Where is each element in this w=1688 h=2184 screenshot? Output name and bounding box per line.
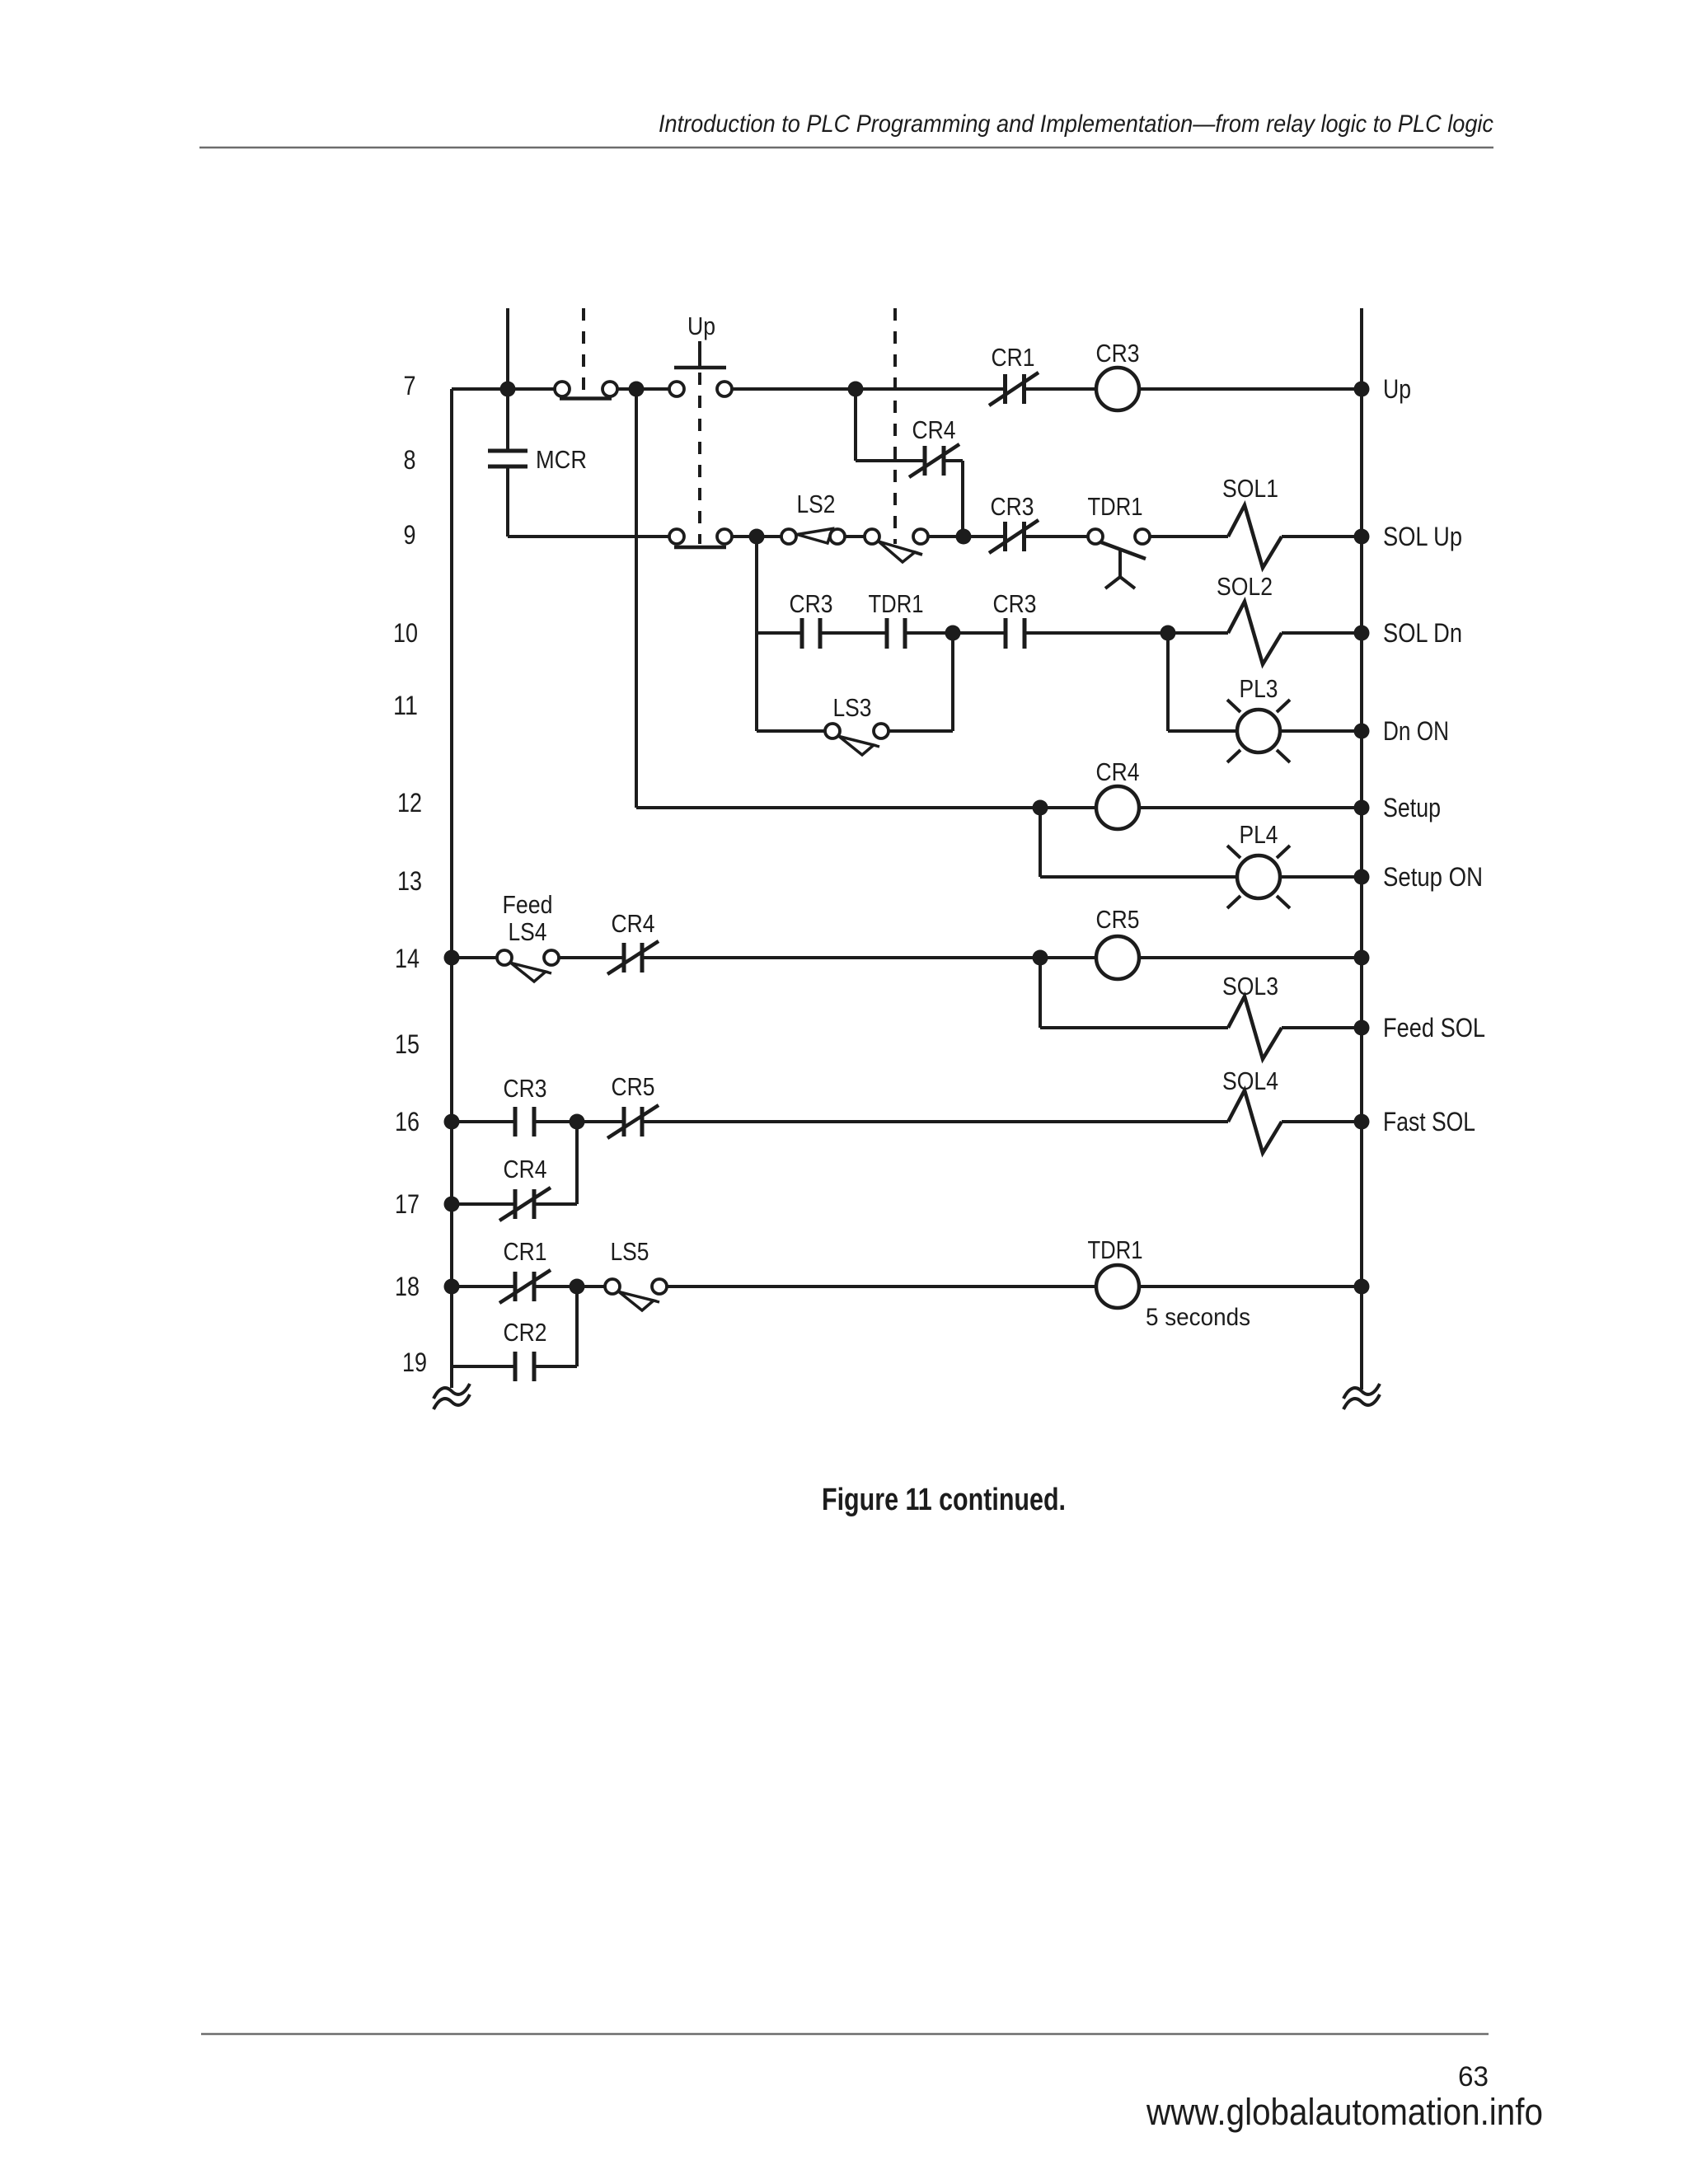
coil CR5 [1096, 936, 1139, 979]
contact TDR1 NO bars rung10 [885, 618, 889, 649]
svg-text:Figure 11 continued.: Figure 11 continued. [822, 1483, 1066, 1517]
limit switch LS5 NO terminals [605, 1279, 620, 1294]
wire rung9 seg2 [732, 535, 781, 538]
junction dot rung13/right rail [1354, 869, 1370, 885]
junction dot rung14/left rail [444, 950, 460, 966]
wire rung7 seg3 [732, 387, 1005, 391]
wire rung12 seg2 [1138, 806, 1362, 809]
junction dot rung7/rung12 feeder [629, 382, 645, 397]
pushbutton Up NO contact terminals [669, 382, 684, 396]
timed contact TDR1 NO terminals [1088, 529, 1103, 544]
wire rung9 seg4 [928, 535, 1005, 538]
branch wire rung19 up to rung18 [575, 1286, 579, 1366]
mechanical linkage dashed of Up pushbutton poles [698, 373, 701, 544]
MCR contact lower plate [488, 465, 527, 469]
svg-text:CR4: CR4 [1096, 757, 1140, 786]
svg-text:CR5: CR5 [612, 1072, 655, 1101]
wire rung8 seg2 [944, 459, 963, 462]
svg-text:CR2: CR2 [504, 1318, 547, 1347]
wire rung12 seg1 [636, 806, 1097, 809]
pushbutton Up lower contact bridge bar [674, 546, 726, 550]
svg-text:16: 16 [395, 1107, 420, 1137]
junction dot rung10/PL3 branch [1160, 626, 1176, 641]
wire rung11 seg4 [1280, 729, 1362, 733]
svg-text:TDR1: TDR1 [1088, 1235, 1143, 1264]
pushbutton Up operator bar [674, 366, 726, 370]
coil TDR1 [1096, 1265, 1139, 1308]
svg-text:CR3: CR3 [790, 589, 833, 618]
solenoid SOL4 [1228, 1090, 1282, 1153]
wire rung18 seg2 [534, 1285, 605, 1288]
svg-text:Up: Up [687, 312, 715, 340]
svg-text:11: 11 [393, 691, 418, 720]
svg-text:12: 12 [397, 788, 422, 818]
junction dot rung7/CR4 branch [848, 382, 864, 397]
svg-text:TDR1: TDR1 [869, 589, 924, 618]
svg-text:63: 63 [1458, 2061, 1489, 2093]
svg-text:PL3: PL3 [1240, 674, 1278, 703]
wire rung10 seg1 [757, 631, 802, 635]
limit switch LS3 actuator arm [839, 737, 874, 756]
coil CR4 [1096, 786, 1139, 829]
junction dot rung15/right rail [1354, 1020, 1370, 1036]
rung numbers [393, 371, 427, 1377]
solenoid SOL3 [1228, 996, 1282, 1059]
wire rung11 seg1 [757, 729, 825, 733]
svg-text:TDR1: TDR1 [1088, 492, 1143, 521]
junction dot rung9/rung10 branch [749, 529, 765, 545]
wire stub from rung 6 above to MCR branch [506, 308, 509, 449]
wire rung8 seg1 [856, 459, 925, 462]
junction dot rung16/CR4 branch [570, 1114, 585, 1130]
branch wire rung7 down to CR4 contact rung8 [854, 389, 857, 461]
svg-text:CR3: CR3 [1096, 339, 1140, 368]
wire rung16 seg3 [642, 1120, 1228, 1123]
contact CR3 NC slash rung9 [989, 520, 1039, 553]
svg-text:SOL2: SOL2 [1217, 572, 1273, 601]
junction dot rung11/right rail [1354, 724, 1370, 739]
wire rung11 seg3 [1168, 729, 1237, 733]
svg-text:CR3: CR3 [991, 492, 1034, 521]
wire rung15 seg2 [1282, 1026, 1362, 1029]
svg-text:Feed: Feed [503, 890, 553, 919]
wire rung16 seg1 [452, 1120, 515, 1123]
wire rung16 seg2 [534, 1120, 624, 1123]
wire rung10 seg2 [820, 631, 887, 635]
svg-text:Setup: Setup [1383, 793, 1441, 823]
junction dot rung18/right rail [1354, 1279, 1370, 1295]
svg-text:14: 14 [395, 944, 420, 973]
junction dot rung17/left rail [444, 1197, 460, 1212]
svg-text:7: 7 [404, 371, 416, 401]
svg-text:Dn ON: Dn ON [1383, 716, 1449, 746]
limit switch LS4 actuator arm [511, 963, 546, 982]
junction dot rung12/PL4 branch [1033, 800, 1048, 816]
svg-text:Introduction to PLC Programmin: Introduction to PLC Programming and Impl… [659, 110, 1493, 138]
left power rail L1 [450, 389, 453, 1388]
branch wire rung9 down to rung10/11 [755, 537, 758, 731]
svg-text:13: 13 [397, 866, 422, 896]
svg-text:MCR: MCR [536, 445, 587, 474]
junction dot rung9/CR4 branch [956, 529, 972, 545]
branch wire rung12 to PL4 rung13 [1039, 808, 1042, 877]
pilot light PL3 [1237, 710, 1280, 752]
wire rung19 seg1 [452, 1365, 515, 1368]
right rail continuation break [1343, 1384, 1380, 1399]
svg-text:CR3: CR3 [504, 1074, 547, 1103]
left rail continuation break [434, 1384, 470, 1399]
right power rail L2 [1360, 308, 1363, 1390]
wire rung19 seg2 [534, 1365, 577, 1368]
wire rung17 seg1 [452, 1202, 515, 1206]
header rule [199, 147, 1493, 149]
junction dot rung16/right rail [1354, 1114, 1370, 1130]
pilot light PL4 [1237, 855, 1280, 898]
svg-text:LS4: LS4 [509, 917, 547, 946]
svg-text:5 seconds: 5 seconds [1146, 1304, 1250, 1331]
mechanical linkage dashed from switch on previous rungs to contact A [582, 308, 585, 396]
svg-text:15: 15 [395, 1029, 420, 1059]
MCR contact capacitor-style upper plate [488, 449, 527, 453]
svg-text:LS2: LS2 [797, 490, 836, 518]
right side wire name labels [1383, 374, 1485, 1137]
svg-text:www.globalautomation.info: www.globalautomation.info [1146, 2091, 1543, 2133]
junction dot rung14/SOL3 branch [1033, 950, 1048, 966]
contact CR4 NC bars rung14 [622, 943, 626, 972]
wire rung7 seg2 [617, 387, 669, 391]
wire rung9 seg3 [845, 535, 865, 538]
contact CR5 NC slash rung16 [607, 1105, 659, 1138]
wire rung14 seg1 [452, 956, 497, 959]
svg-text:CR4: CR4 [612, 909, 655, 938]
wire rung10 seg4 [1025, 631, 1228, 635]
svg-text:18: 18 [395, 1272, 420, 1301]
svg-text:Feed SOL: Feed SOL [1383, 1013, 1485, 1043]
contact CR3 NO bars rung10 second [1004, 618, 1008, 649]
svg-text:SOL3: SOL3 [1222, 972, 1278, 1001]
junction dot rung12/right rail [1354, 800, 1370, 816]
contact CR4 NC bars rung17 [513, 1189, 518, 1219]
branch wire rung14 to SOL3 rung15 [1039, 958, 1042, 1028]
wire rung10 seg3 [905, 631, 1006, 635]
limit switch LS2 held-open actuator arm [879, 541, 915, 562]
wire rung9 seg6 [1150, 535, 1228, 538]
limit switch LS5 actuator arm [619, 1292, 654, 1311]
limit switch LS2 NO terminals [781, 529, 796, 544]
svg-text:SOL Up: SOL Up [1383, 522, 1462, 551]
svg-text:Fast SOL: Fast SOL [1383, 1107, 1475, 1137]
mechanical linkage dashed from switch on previous rungs to LS2 held contact [893, 308, 897, 544]
contact CR1 NC slash rung18 [499, 1270, 551, 1303]
svg-text:17: 17 [395, 1189, 420, 1219]
wire rung14 seg2 [559, 956, 624, 959]
wire rung10 seg5 [1282, 631, 1362, 635]
footer rule [201, 2033, 1489, 2036]
branch wire rung10 to PL3 rung11 [1166, 633, 1170, 731]
limit switch LS2 actuator arm [797, 529, 832, 544]
svg-text:CR4: CR4 [912, 415, 956, 444]
contact CR1 NC bars [1003, 374, 1007, 404]
wire rung9 seg5 [1025, 535, 1088, 538]
timed contact TDR1 arm [1101, 542, 1146, 559]
junction dot rung7/right rail [1354, 382, 1370, 397]
junction dot rung18/CR2 branch [570, 1279, 585, 1295]
feeder wire rung7 to rung12 [635, 389, 638, 808]
timed contact TDR1 on-delay fork [1118, 550, 1122, 577]
wire rung14 seg4 [1138, 956, 1362, 959]
wire rung15 seg1 [1040, 1026, 1228, 1029]
contact CR4 NC slash rung8 [909, 444, 959, 477]
svg-text:CR1: CR1 [992, 343, 1035, 372]
wire rung18 seg3 [667, 1285, 1097, 1288]
contact CR1 NC slash [989, 373, 1039, 405]
branch wire rung17 up to rung16 [575, 1122, 579, 1204]
limit switch LS4 NO terminals [497, 950, 512, 965]
contact A bridge bar [560, 396, 612, 401]
svg-text:PL4: PL4 [1240, 820, 1278, 849]
pushbutton Up operator stem [698, 341, 701, 368]
contact CR4 NC slash rung17 [499, 1188, 551, 1221]
svg-text:SOL1: SOL1 [1222, 474, 1278, 503]
component labels [503, 312, 1279, 1347]
svg-text:SOL Dn: SOL Dn [1383, 618, 1462, 648]
contact A upper pole (linked switch) terminals [555, 382, 570, 396]
junction dot rung14/right rail [1354, 950, 1370, 966]
contact CR3 NC bars rung9 [1003, 522, 1007, 551]
contact CR3 NO bars rung16 [513, 1107, 518, 1137]
wire rung17 seg2 [534, 1202, 577, 1206]
junction dot rung16/left rail [444, 1114, 460, 1130]
wire rung18 seg1 [452, 1285, 515, 1288]
junction dot rung10/right rail [1354, 626, 1370, 641]
wire rung7 seg5 [1138, 387, 1362, 391]
svg-text:10: 10 [393, 618, 418, 648]
svg-text:CR3: CR3 [993, 589, 1037, 618]
wire rung11 seg2 [889, 729, 953, 733]
svg-text:Setup ON: Setup ON [1383, 862, 1483, 892]
wire rung7 seg4 [1025, 387, 1097, 391]
junction dot rung7/MCR branch [500, 382, 516, 397]
wire rung7 seg1 [452, 387, 555, 391]
svg-text:LS5: LS5 [611, 1237, 649, 1266]
svg-text:9: 9 [404, 520, 416, 550]
svg-text:8: 8 [404, 445, 416, 475]
svg-text:LS3: LS3 [833, 693, 872, 722]
junction dot rung10/LS3 branch [945, 626, 961, 641]
svg-text:Up: Up [1383, 374, 1411, 404]
svg-text:CR1: CR1 [504, 1237, 547, 1266]
wire MCR to rung9 [506, 468, 509, 537]
solenoid SOL1 [1228, 505, 1282, 568]
wire rung9 seg1 [508, 535, 669, 538]
wire rung18 seg4 [1138, 1285, 1362, 1288]
solenoid SOL2 [1228, 602, 1282, 664]
wire rung13 seg2 [1280, 875, 1362, 879]
coil CR3 [1096, 368, 1139, 410]
wire rung14 seg3 [642, 956, 1097, 959]
wire rung9 seg7 [1282, 535, 1362, 538]
branch wire rung10 to LS3 rung11 [951, 633, 954, 731]
wire rung8 down to rung9 [961, 461, 964, 537]
svg-text:CR4: CR4 [504, 1155, 547, 1183]
junction dot rung18/left rail [444, 1279, 460, 1295]
svg-text:SOL4: SOL4 [1222, 1066, 1278, 1095]
contact CR3 NO bars rung10 [800, 618, 804, 649]
contact CR2 NO bars rung19 [513, 1352, 518, 1381]
contact CR5 NC bars rung16 [622, 1107, 626, 1137]
contact CR4 NC bars rung8 [923, 446, 927, 476]
contact CR1 NC bars rung18 [513, 1272, 518, 1301]
junction dot rung9/right rail [1354, 529, 1370, 545]
limit switch LS2 held-open pole terminals [865, 529, 879, 544]
svg-text:CR5: CR5 [1096, 905, 1140, 934]
pushbutton Up lower NO contact terminals [669, 529, 684, 544]
limit switch LS3 NO terminals [825, 724, 840, 738]
wire rung13 seg1 [1040, 875, 1237, 879]
svg-text:19: 19 [402, 1347, 427, 1377]
contact CR4 NC slash rung14 [607, 941, 659, 974]
wire rung16 seg4 [1282, 1120, 1362, 1123]
